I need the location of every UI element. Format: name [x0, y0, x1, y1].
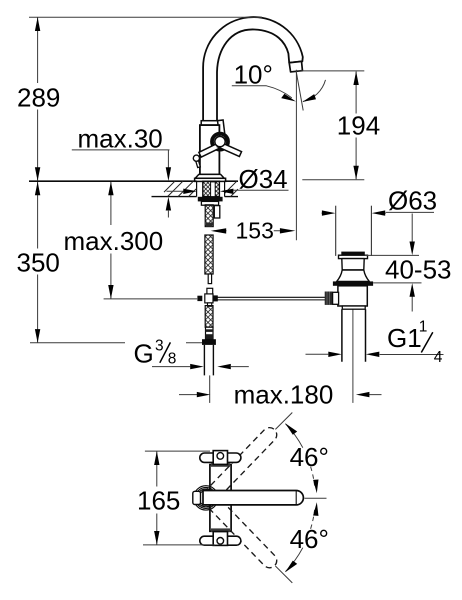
upper swivel ray: [275, 413, 292, 430]
dim 10 deg leader: [232, 86, 292, 98]
counter bottom line: [152, 196, 239, 198]
dim 165 arrows: [154, 451, 159, 465]
rod knurled knob: [325, 292, 333, 305]
svg-text:165: 165: [137, 485, 180, 515]
spout tip 10deg tilted line: [296, 72, 303, 111]
dim 194 extensions: [298, 71, 365, 180]
dim 40-53 extensions: [365, 255, 422, 283]
dashed spout position upper: [204, 425, 280, 503]
svg-text:46°: 46°: [290, 442, 329, 472]
dim 350 arrows: [35, 182, 40, 196]
svg-text:max.30: max.30: [78, 123, 163, 153]
svg-text:Ø34: Ø34: [239, 164, 288, 194]
rod clamp left: [197, 296, 202, 301]
G3/8 nut: [202, 339, 216, 345]
drain lower body: [338, 286, 367, 306]
dim 194 arrows: [353, 71, 358, 85]
bottom hub block: [213, 532, 227, 546]
svg-text:153: 153: [236, 217, 274, 243]
spout pivot rings: [194, 486, 218, 510]
dim 289 arrows: [35, 17, 40, 31]
top hub screw: [217, 453, 224, 460]
supply pipe centerline: [209, 375, 211, 403]
dim Ø34 arrows: [183, 189, 197, 194]
plan body: [210, 465, 231, 532]
dim 40-53 arrows: [410, 242, 415, 256]
handle upper spoke: [218, 120, 226, 142]
pop-up rod to drain: [217, 297, 325, 300]
lever cap chord: [295, 491, 297, 505]
svg-text:G: G: [134, 339, 154, 369]
drain flange: [333, 281, 373, 285]
dim 10 deg arc: [303, 80, 326, 102]
drain tailpipe: [342, 309, 366, 362]
drain plug disc: [339, 255, 368, 258]
bottom hub screw: [217, 538, 224, 545]
top hub block: [213, 451, 227, 465]
svg-text:46°: 46°: [290, 524, 329, 554]
drain plug cap: [341, 252, 365, 256]
plan body top gasket: [211, 463, 230, 467]
svg-text:Ø63: Ø63: [388, 185, 437, 215]
dim 289/350 vertical line: [37, 17, 39, 342]
svg-text:40-53: 40-53: [385, 254, 452, 284]
threaded shank: [203, 181, 220, 196]
rod clamp right: [213, 295, 218, 301]
coupler stub below: [208, 303, 212, 306]
svg-text:289: 289: [17, 82, 60, 112]
pop-up knob: [196, 160, 201, 167]
dim 194 vertical: [355, 72, 357, 180]
counter hatch left: [164, 181, 197, 196]
lower 46 arc: [285, 548, 302, 572]
hose1 dark tip: [206, 223, 212, 227]
lower swivel ray: [275, 566, 292, 583]
plan body bottom gasket: [211, 528, 230, 532]
drain centerline: [352, 297, 354, 403]
dim 165 extensions: [143, 451, 215, 545]
drain groove ring: [342, 306, 365, 309]
bottom crossbar: [200, 536, 241, 545]
dim 40-53 vertical: [411, 214, 413, 312]
handle hub: [215, 136, 225, 146]
spout collar: [201, 121, 219, 125]
lower 46 arrowheads: [285, 561, 297, 573]
top crossbar: [200, 453, 241, 462]
drain extension line right: [370, 206, 372, 256]
hose2 end tube: [208, 274, 211, 284]
shank channel: [211, 182, 216, 197]
drain upper body: [337, 270, 370, 281]
flex hose 1: [205, 205, 213, 227]
counter top line: [29, 180, 238, 182]
upper 46 arc: [285, 424, 302, 448]
hose3 end fitting: [206, 327, 214, 339]
svg-text:1: 1: [419, 319, 428, 336]
dim G3/8 line: [152, 366, 249, 368]
rod coupler stub above: [207, 288, 213, 295]
flex hose 3: [205, 306, 213, 328]
upper 46 arrowheads: [285, 423, 297, 435]
spout tip extension vertical: [295, 70, 297, 240]
side tube: [214, 206, 220, 218]
rod ball collar: [333, 292, 339, 304]
svg-text:194: 194: [337, 110, 380, 140]
dim 350 extension bottom: [30, 342, 202, 344]
spout gooseneck tube: [203, 17, 303, 121]
svg-text:4: 4: [434, 349, 443, 366]
supply pipe: [204, 345, 213, 376]
mounting nut: [198, 197, 223, 202]
svg-text:10°: 10°: [234, 59, 273, 89]
dim max.180 arrows: [197, 392, 211, 397]
dim Ø63 arrows: [322, 210, 336, 215]
counter hatch right: [225, 181, 238, 196]
dim 289 extension top: [29, 16, 262, 18]
drain neck: [342, 259, 364, 270]
dim G1 1/4 arrows: [328, 352, 342, 357]
handle right spoke: [217, 142, 241, 157]
swivel reference line: [305, 497, 327, 499]
spout lever plan: [203, 491, 303, 505]
dim Ø34 line: [167, 190, 289, 191]
svg-text:max.300: max.300: [64, 226, 164, 256]
pop-up rod left extension: [104, 298, 198, 300]
faucet body front: [200, 125, 220, 175]
rod coupler center: [205, 294, 213, 303]
dim 153 line: [214, 230, 281, 232]
svg-text:3: 3: [155, 338, 164, 355]
dim max.30 leader: [72, 150, 170, 168]
svg-text:G1: G1: [387, 323, 422, 353]
dim max.30 arrows: [166, 167, 171, 181]
flex hose 2: [205, 235, 213, 274]
dim G1 1/4 line: [306, 353, 444, 355]
dim max.300 arrows: [108, 182, 113, 196]
dim max.180 line: [179, 394, 382, 396]
dim 153 arrows: [211, 228, 227, 233]
spout aerator tip: [289, 61, 302, 72]
dim G3/8 arrows: [190, 364, 204, 369]
svg-text:350: 350: [17, 247, 60, 277]
dim Ø63 line: [322, 211, 435, 214]
step below nut: [201, 201, 218, 205]
drain extension line left: [335, 206, 337, 256]
base flange: [195, 174, 224, 178]
dim max.300 vertical: [110, 182, 112, 299]
handle dark ring: [212, 134, 228, 150]
dim 165 vertical: [156, 452, 158, 545]
handle left spoke: [199, 142, 223, 157]
svg-text:max.180: max.180: [234, 380, 334, 410]
pivot nose tab: [193, 491, 201, 504]
svg-text:8: 8: [168, 351, 177, 368]
counter hole edges: [197, 181, 225, 196]
dashed spout position lower: [204, 493, 280, 571]
